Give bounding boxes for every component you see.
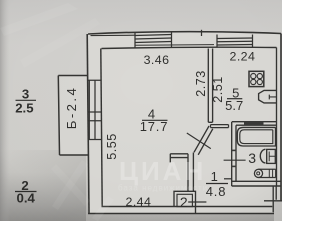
kitchen door threshold bbox=[211, 125, 229, 128]
toilet bowl bbox=[260, 149, 265, 163]
door leaf room4 bbox=[187, 133, 211, 149]
bathroom left wall bbox=[232, 122, 236, 186]
bottom right lighter patch bbox=[274, 202, 282, 222]
bottom-left shadow bbox=[0, 150, 86, 221]
balcony fill bbox=[59, 76, 89, 156]
hallway left wall bbox=[188, 153, 193, 192]
window sill line left bbox=[91, 34, 136, 36]
wall bottom outer bbox=[88, 213, 274, 215]
diagonal wall bbox=[194, 126, 213, 155]
closet outer bbox=[174, 191, 196, 213]
paper crease highlight top-left bbox=[0, 3, 78, 36]
wall left outer bbox=[87, 34, 89, 214]
wall kitchen divider bbox=[208, 49, 212, 123]
door jamb marks bathroom bbox=[231, 150, 236, 152]
bathroom top wall bbox=[232, 122, 277, 126]
wall left inner bbox=[101, 49, 102, 207]
dim tick on top wall bbox=[201, 30, 203, 36]
balcony window ticks bbox=[88, 80, 102, 139]
hallway stub wall bbox=[170, 154, 188, 163]
fraction bars bbox=[15, 99, 242, 192]
sink bbox=[259, 90, 277, 103]
balcony outline bbox=[58, 76, 88, 156]
dark wall bar in bathroom top bbox=[244, 121, 264, 125]
wall right inner bbox=[276, 48, 278, 187]
bathroom bottom wall bbox=[232, 181, 281, 186]
flat interior lighter fill bbox=[88, 33, 281, 214]
water heater / washing unit bbox=[259, 169, 276, 177]
bathroom wall stub bbox=[224, 178, 232, 180]
left edge dark band bbox=[0, 0, 10, 221]
wall top outer bbox=[88, 32, 281, 34]
watermark bbox=[118, 156, 208, 193]
wall top inner bbox=[102, 47, 277, 48]
closet label leader bbox=[188, 201, 206, 203]
watermark logo blob bbox=[52, 160, 88, 210]
window W2 kitchen bbox=[217, 35, 253, 48]
bathroom door line bbox=[224, 159, 246, 161]
bathtub outer bbox=[237, 127, 275, 146]
balcony window lines bbox=[89, 80, 95, 140]
toilet tank bbox=[267, 149, 276, 163]
window sill line right bbox=[135, 44, 214, 47]
window W1 room4 bbox=[135, 32, 172, 48]
wall bottom inner bbox=[102, 206, 273, 208]
bathtub inner bbox=[240, 130, 273, 144]
landing step lines bbox=[264, 186, 282, 212]
closet inner bbox=[177, 194, 192, 206]
wall right outer bbox=[280, 34, 282, 201]
stove bbox=[249, 71, 264, 86]
